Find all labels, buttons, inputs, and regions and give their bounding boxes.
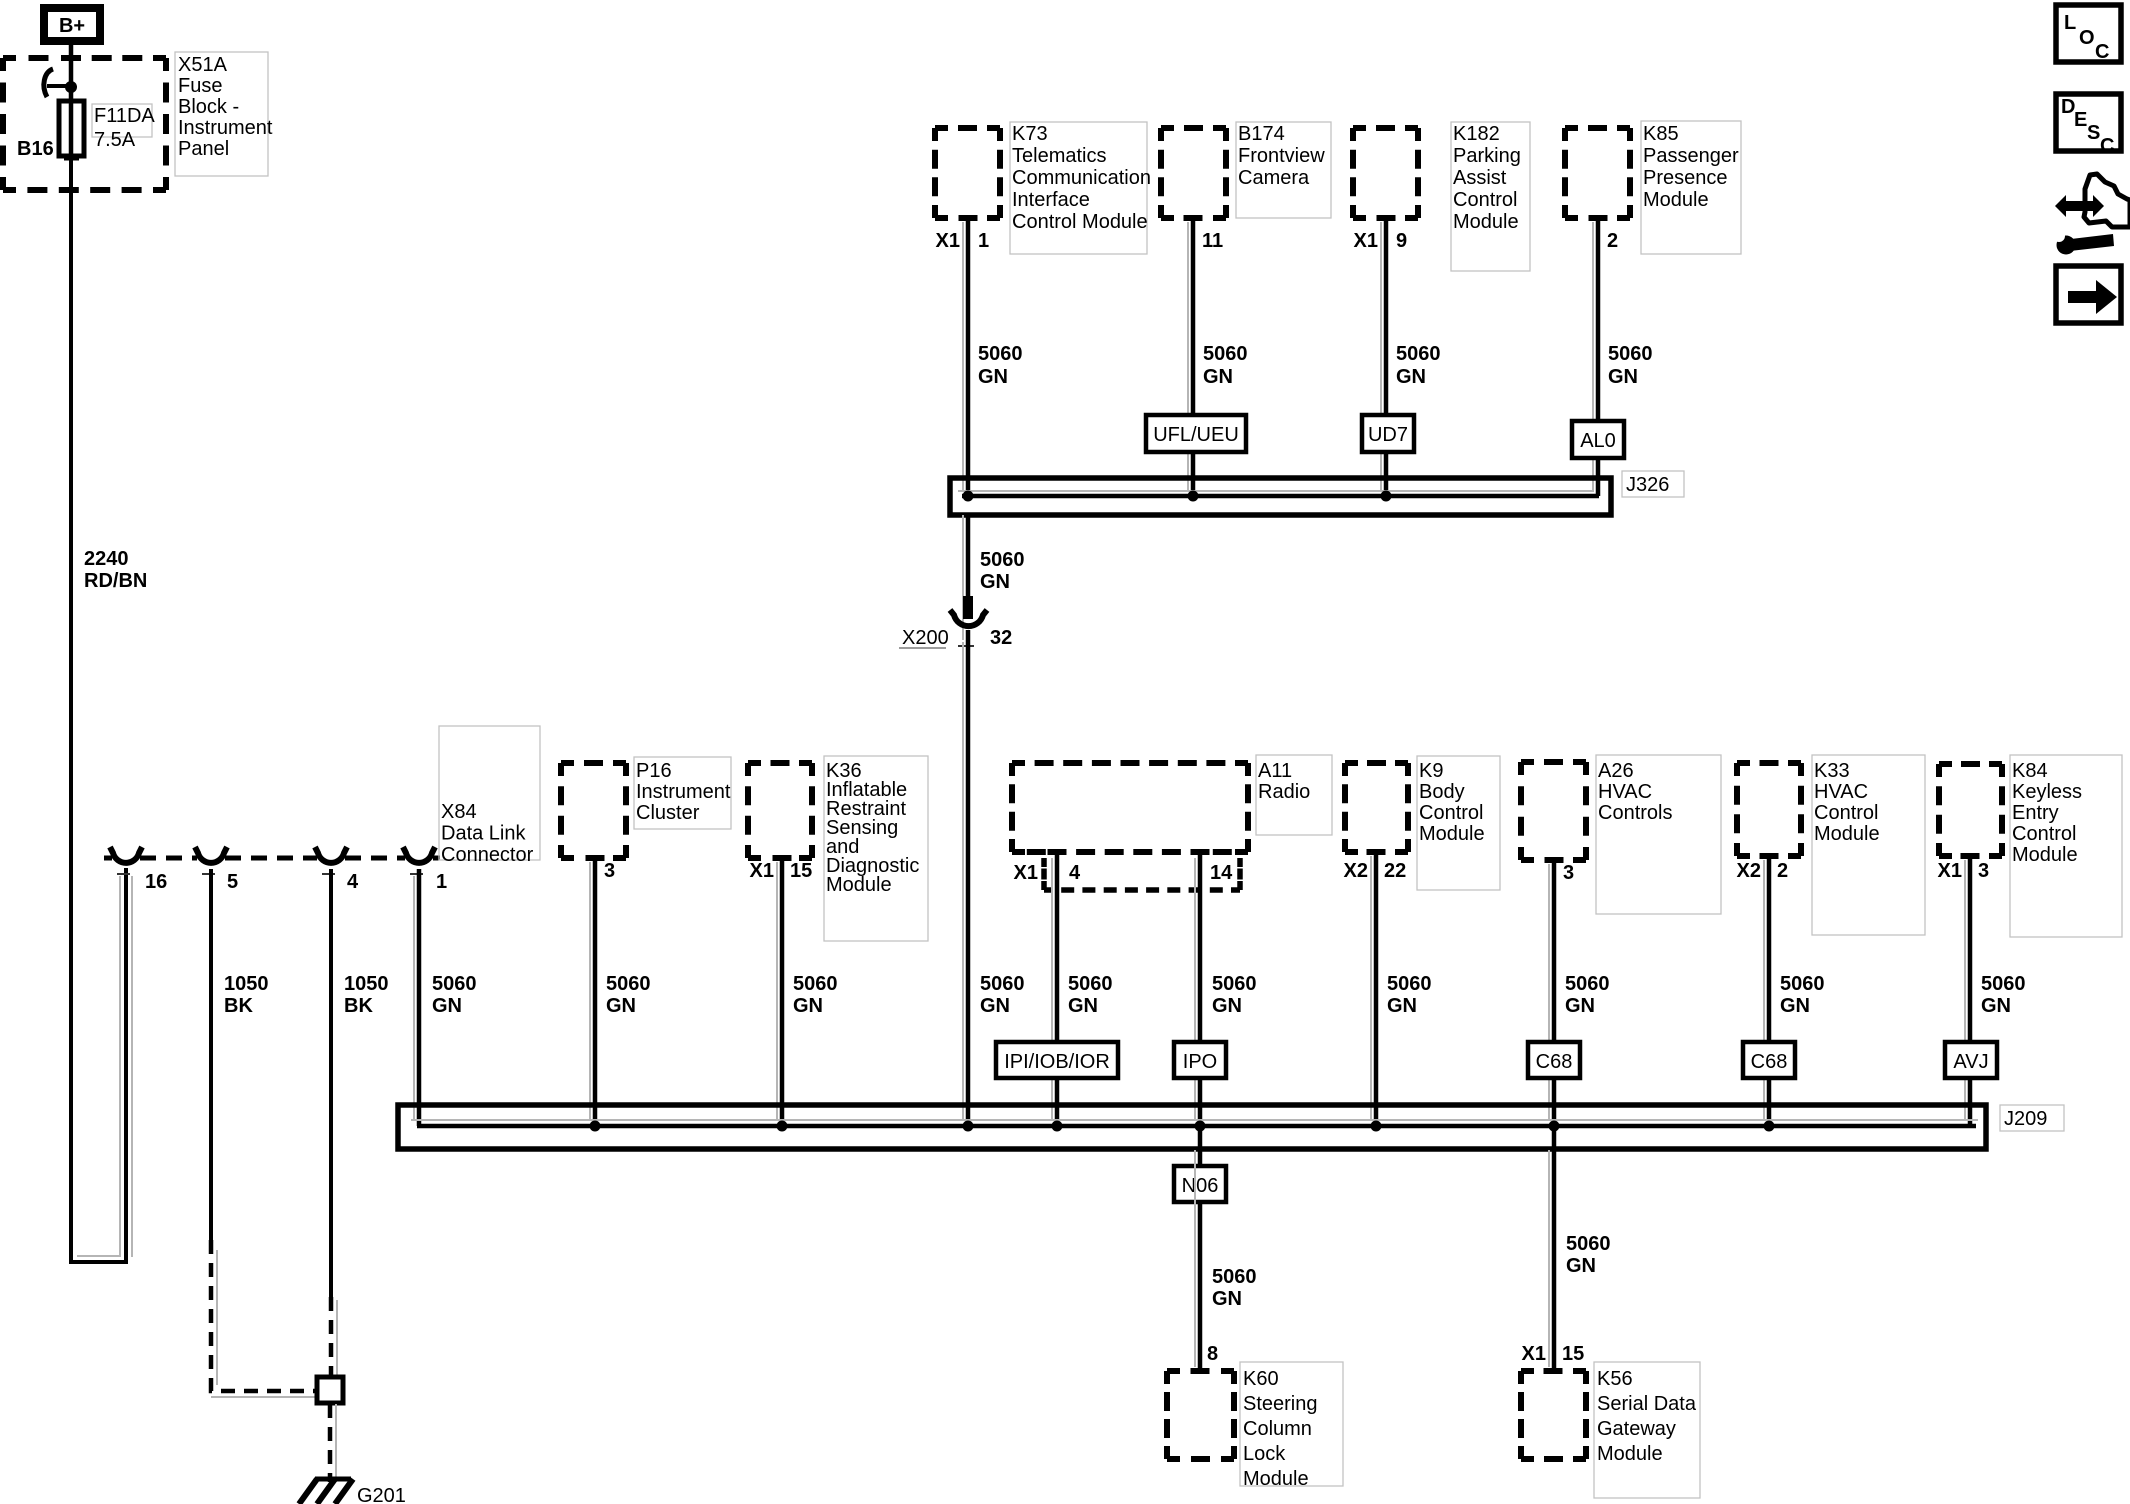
wire P16 to J209 bbox=[593, 855, 598, 1126]
svg-text:5060: 5060 bbox=[1396, 343, 1441, 365]
wire K85 to J326 bbox=[1596, 215, 1601, 496]
wire X84 pin 4 dashed to splice bbox=[329, 1297, 334, 1375]
svg-text:5060: 5060 bbox=[1387, 973, 1432, 995]
option box N06 bbox=[1174, 1126, 1226, 1202]
svg-text:X1: X1 bbox=[1354, 230, 1378, 252]
svg-text:2: 2 bbox=[1607, 230, 1618, 252]
svg-text:K73: K73 bbox=[1012, 123, 1048, 145]
wire label 5060 GN (X200 feed) bbox=[980, 549, 1025, 593]
svg-text:BK: BK bbox=[224, 995, 253, 1017]
ground G201 bbox=[299, 1479, 353, 1504]
option box C68 (A26 branch) bbox=[1528, 1042, 1580, 1078]
svg-text:Presence: Presence bbox=[1643, 167, 1728, 189]
svg-text:5060: 5060 bbox=[1203, 343, 1248, 365]
svg-text:Instrument: Instrument bbox=[178, 117, 273, 139]
svg-text:AL0: AL0 bbox=[1580, 430, 1616, 452]
svg-text:GN: GN bbox=[432, 995, 462, 1017]
svg-text:11: 11 bbox=[1202, 230, 1223, 252]
wire K36 to J209 bbox=[780, 855, 785, 1126]
svg-text:1050: 1050 bbox=[344, 973, 389, 995]
svg-text:L: L bbox=[2064, 12, 2076, 34]
wire label 1050 BK (pin 5) bbox=[224, 973, 269, 1017]
pin X2 2 of K33 bbox=[1737, 860, 1789, 882]
svg-text:UD7: UD7 bbox=[1368, 424, 1408, 446]
svg-text:RD/BN: RD/BN bbox=[84, 570, 147, 592]
svg-text:Serial Data: Serial Data bbox=[1597, 1393, 1697, 1415]
svg-text:Block -: Block - bbox=[178, 96, 239, 118]
svg-text:22: 22 bbox=[1384, 860, 1406, 882]
svg-text:O: O bbox=[2079, 27, 2095, 49]
module K60 Steering Column Lock Module bbox=[1167, 1362, 1343, 1490]
svg-text:5060: 5060 bbox=[793, 973, 838, 995]
svg-text:C: C bbox=[2095, 41, 2109, 63]
svg-text:4: 4 bbox=[347, 871, 359, 893]
svg-text:UFL/UEU: UFL/UEU bbox=[1153, 424, 1239, 446]
svg-text:GN: GN bbox=[1981, 995, 2011, 1017]
svg-text:14: 14 bbox=[1210, 862, 1233, 884]
svg-text:5060: 5060 bbox=[1212, 1266, 1257, 1288]
wire C68 to K56 bbox=[1552, 1126, 1557, 1373]
wire label 5060 GN (K56) bbox=[1566, 1233, 1611, 1277]
svg-text:5060: 5060 bbox=[980, 549, 1025, 571]
fuse holder clip bbox=[44, 69, 77, 97]
svg-text:K182: K182 bbox=[1453, 123, 1500, 145]
pin numbers 16 5 4 1 of X84 bbox=[145, 871, 447, 893]
connector X84 cavity 5 bbox=[195, 847, 227, 863]
wire B+ to fuse bbox=[69, 45, 74, 101]
svg-text:Module: Module bbox=[1643, 189, 1709, 211]
wire N06 to K60 bbox=[1198, 1202, 1203, 1373]
wire X200 to J209 bbox=[966, 630, 971, 1126]
module A26 HVAC Controls bbox=[1521, 755, 1721, 914]
svg-text:Passenger: Passenger bbox=[1643, 145, 1739, 167]
svg-text:Module: Module bbox=[1453, 211, 1519, 233]
svg-text:C68: C68 bbox=[1536, 1051, 1573, 1073]
svg-text:3: 3 bbox=[1563, 862, 1574, 884]
svg-text:B16: B16 bbox=[17, 138, 54, 160]
connector X84 cavity 4 bbox=[315, 847, 347, 863]
label X84 Data Link Connector bbox=[439, 726, 540, 866]
svg-text:X51A: X51A bbox=[178, 54, 228, 76]
fuse block X51A dashed outline bbox=[3, 58, 166, 190]
svg-text:Parking: Parking bbox=[1453, 145, 1521, 167]
svg-text:5060: 5060 bbox=[606, 973, 651, 995]
svg-text:GN: GN bbox=[1566, 1255, 1596, 1277]
wire A11 pin 14 to J209 bbox=[1198, 850, 1203, 1126]
svg-text:Camera: Camera bbox=[1238, 167, 1310, 189]
svg-text:X1: X1 bbox=[1938, 860, 1962, 882]
svg-text:15: 15 bbox=[790, 860, 812, 882]
wire label 5060 GN (pin 1) bbox=[432, 973, 477, 1017]
splice pack J209 bbox=[398, 1105, 1986, 1149]
wire X84 pin 5 ground branch solid part bbox=[209, 869, 213, 1240]
svg-text:3: 3 bbox=[604, 860, 615, 882]
svg-text:F11DA: F11DA bbox=[94, 105, 155, 127]
svg-text:Column: Column bbox=[1243, 1418, 1312, 1440]
svg-text:IPI/IOB/IOR: IPI/IOB/IOR bbox=[1004, 1051, 1110, 1073]
wire label 5060 GN (A26) bbox=[1565, 973, 1610, 1017]
connector X84 cavity 16 bbox=[110, 847, 142, 863]
svg-text:5060: 5060 bbox=[1566, 1233, 1611, 1255]
svg-text:GN: GN bbox=[1068, 995, 1098, 1017]
svg-text:5060: 5060 bbox=[1608, 343, 1653, 365]
data link connector X84 face line bbox=[104, 856, 440, 861]
svg-text:Module: Module bbox=[1597, 1443, 1663, 1465]
label J209 bbox=[2000, 1105, 2064, 1131]
svg-text:GN: GN bbox=[1608, 366, 1638, 388]
svg-text:Module: Module bbox=[1243, 1468, 1309, 1490]
connector X1 sub-outline of A11 bbox=[1044, 858, 1240, 890]
svg-text:Entry: Entry bbox=[2012, 802, 2059, 824]
module K85 Passenger Presence Module bbox=[1565, 121, 1741, 254]
svg-text:5060: 5060 bbox=[980, 973, 1025, 995]
wire B174 to J326 bbox=[1191, 215, 1196, 496]
svg-text:16: 16 bbox=[145, 871, 167, 893]
svg-text:1: 1 bbox=[436, 871, 447, 893]
svg-text:E: E bbox=[2074, 109, 2087, 131]
svg-text:Lock: Lock bbox=[1243, 1443, 1286, 1465]
svg-text:K9: K9 bbox=[1419, 760, 1443, 782]
wire X84 pin 5 dashed to splice bbox=[211, 1240, 317, 1391]
pin X2 22 of K9 bbox=[1344, 860, 1407, 882]
svg-text:Control: Control bbox=[1419, 802, 1483, 824]
wire label 5060 GN (K84) bbox=[1981, 973, 2026, 1017]
svg-text:Module: Module bbox=[826, 874, 892, 896]
wire splice to ground dashed bbox=[328, 1404, 333, 1482]
svg-text:B174: B174 bbox=[1238, 123, 1285, 145]
svg-text:8: 8 bbox=[1207, 1343, 1218, 1365]
svg-text:Body: Body bbox=[1419, 781, 1465, 803]
svg-text:HVAC: HVAC bbox=[1814, 781, 1868, 803]
svg-text:K85: K85 bbox=[1643, 123, 1679, 145]
module K56 Serial Data Gateway Module bbox=[1521, 1362, 1700, 1498]
svg-text:K60: K60 bbox=[1243, 1368, 1279, 1390]
wire label 5060 GN (B174) bbox=[1203, 343, 1248, 388]
svg-text:S: S bbox=[2087, 122, 2100, 144]
svg-text:IPO: IPO bbox=[1183, 1051, 1217, 1073]
svg-text:X1: X1 bbox=[1522, 1343, 1546, 1365]
wire label 5060 GN (K182) bbox=[1396, 343, 1441, 388]
wire 2240 RD/BN left vertical with U-turn to X84 pin 16 bbox=[71, 156, 126, 1262]
svg-text:5060: 5060 bbox=[432, 973, 477, 995]
svg-text:C: C bbox=[2100, 135, 2114, 157]
svg-text:Control: Control bbox=[1814, 802, 1878, 824]
wire label 5060 GN (P16) bbox=[606, 973, 651, 1017]
svg-text:C68: C68 bbox=[1751, 1051, 1788, 1073]
svg-text:X1: X1 bbox=[750, 860, 774, 882]
sidebar icon DESC bbox=[2056, 94, 2121, 157]
svg-text:5060: 5060 bbox=[1212, 973, 1257, 995]
wire J326 to X200 bbox=[966, 515, 971, 600]
wire label 5060 GN (K85) bbox=[1608, 343, 1653, 388]
svg-text:GN: GN bbox=[1396, 366, 1426, 388]
svg-text:Control: Control bbox=[1453, 189, 1517, 211]
svg-text:GN: GN bbox=[978, 366, 1008, 388]
svg-text:J209: J209 bbox=[2004, 1108, 2047, 1130]
svg-text:2: 2 bbox=[1777, 860, 1788, 882]
svg-text:Control: Control bbox=[2012, 823, 2076, 845]
inline connector X200 terminal 32 bbox=[899, 596, 1012, 649]
wire label 5060 GN (K73) bbox=[978, 343, 1023, 388]
wire A26 to J209 bbox=[1552, 857, 1557, 1126]
option box AL0 bbox=[1572, 421, 1624, 458]
wire label 5060 GN (K9) bbox=[1387, 973, 1432, 1017]
module A11 Radio bbox=[1012, 755, 1332, 852]
svg-text:Gateway: Gateway bbox=[1597, 1418, 1676, 1440]
wire K9 to J209 bbox=[1374, 849, 1379, 1126]
svg-text:GN: GN bbox=[980, 571, 1010, 593]
svg-text:GN: GN bbox=[1203, 366, 1233, 388]
wire K33 to J209 bbox=[1767, 853, 1772, 1126]
wire label 2240 RD/BN bbox=[84, 548, 147, 592]
label X51A Fuse Block - Instrument Panel bbox=[175, 52, 273, 176]
pin X1 4 of A11 bbox=[1014, 862, 1081, 884]
option box UD7 bbox=[1362, 415, 1414, 452]
sidebar icon LOC bbox=[2056, 5, 2121, 63]
svg-text:K84: K84 bbox=[2012, 760, 2048, 782]
svg-text:GN: GN bbox=[1565, 995, 1595, 1017]
option box UFL/UEU bbox=[1146, 415, 1246, 452]
splice pack J326 bbox=[950, 478, 1611, 515]
sidebar icon next page arrow bbox=[2056, 266, 2121, 323]
svg-text:1050: 1050 bbox=[224, 973, 269, 995]
option box AVJ bbox=[1945, 1042, 1997, 1078]
svg-text:Telematics: Telematics bbox=[1012, 145, 1106, 167]
svg-text:X84: X84 bbox=[441, 801, 477, 823]
svg-text:GN: GN bbox=[1212, 995, 1242, 1017]
highlight trace inside U-turn bbox=[77, 876, 120, 1256]
svg-text:X1: X1 bbox=[936, 230, 960, 252]
svg-text:P16: P16 bbox=[636, 760, 672, 782]
svg-text:1: 1 bbox=[978, 230, 989, 252]
module K84 Keyless Entry Control Module bbox=[1939, 755, 2122, 937]
svg-text:A11: A11 bbox=[1258, 760, 1292, 782]
wire label 5060 GN (A11 pin 4) bbox=[1068, 973, 1113, 1017]
svg-text:5060: 5060 bbox=[1565, 973, 1610, 995]
svg-text:Interface: Interface bbox=[1012, 189, 1090, 211]
svg-text:9: 9 bbox=[1396, 230, 1407, 252]
module K182 Parking Assist Control Module bbox=[1353, 122, 1530, 271]
svg-text:2240: 2240 bbox=[84, 548, 129, 570]
svg-text:GN: GN bbox=[1212, 1288, 1242, 1310]
wire label 5060 GN (K60) bbox=[1212, 1266, 1257, 1310]
label J326 bbox=[1622, 471, 1684, 497]
fuse F11DA 7.5A bbox=[59, 101, 84, 159]
svg-text:3: 3 bbox=[1978, 860, 1989, 882]
svg-text:HVAC: HVAC bbox=[1598, 781, 1652, 803]
pin X1 3 of K84 bbox=[1938, 860, 1990, 882]
wire label 5060 GN (K33) bbox=[1780, 973, 1825, 1017]
module K9 Body Control Module bbox=[1345, 756, 1500, 890]
svg-text:Control Module: Control Module bbox=[1012, 211, 1148, 233]
svg-text:BK: BK bbox=[344, 995, 373, 1017]
svg-text:5060: 5060 bbox=[1068, 973, 1113, 995]
svg-text:AVJ: AVJ bbox=[1953, 1051, 1988, 1073]
svg-text:Connector: Connector bbox=[441, 844, 534, 866]
svg-text:J326: J326 bbox=[1626, 474, 1669, 496]
pin X1 1 of K73 bbox=[936, 230, 990, 252]
module P16 Instrument Cluster bbox=[561, 757, 731, 858]
svg-text:X2: X2 bbox=[1344, 860, 1368, 882]
module B174 Frontview Camera bbox=[1161, 122, 1331, 218]
svg-text:Controls: Controls bbox=[1598, 802, 1672, 824]
module K36 Inflatable Restraint Sensing and Diagnostic Module bbox=[748, 756, 928, 941]
svg-text:Assist: Assist bbox=[1453, 167, 1507, 189]
svg-text:GN: GN bbox=[793, 995, 823, 1017]
svg-text:Module: Module bbox=[2012, 844, 2078, 866]
svg-text:X2: X2 bbox=[1737, 860, 1761, 882]
svg-text:Module: Module bbox=[1814, 823, 1880, 845]
splice junction block bbox=[317, 1377, 343, 1403]
wire X84 pin 1 to J209 bbox=[417, 869, 422, 1126]
svg-text:Fuse: Fuse bbox=[178, 75, 222, 97]
wire K84 to J209 bbox=[1968, 853, 1973, 1126]
svg-text:X1: X1 bbox=[1014, 862, 1038, 884]
svg-text:Module: Module bbox=[1419, 823, 1485, 845]
wire A11 pin 4 to J209 bbox=[1055, 850, 1060, 1126]
wire label 1050 BK (pin 4) bbox=[344, 973, 389, 1017]
wire label 5060 GN (X200 lower) bbox=[980, 973, 1025, 1017]
svg-text:5: 5 bbox=[227, 871, 238, 893]
svg-text:15: 15 bbox=[1562, 1343, 1584, 1365]
svg-text:Communication: Communication bbox=[1012, 167, 1151, 189]
svg-text:G201: G201 bbox=[357, 1485, 406, 1504]
pin X1 15 of K56 bbox=[1522, 1343, 1585, 1365]
svg-text:K56: K56 bbox=[1597, 1368, 1633, 1390]
option box C68 (K33 branch) bbox=[1743, 1042, 1795, 1078]
svg-text:Frontview: Frontview bbox=[1238, 145, 1325, 167]
svg-text:Steering: Steering bbox=[1243, 1393, 1318, 1415]
svg-text:GN: GN bbox=[606, 995, 636, 1017]
sidebar icon harness routing view (arrows and wrench) bbox=[2053, 174, 2130, 255]
option box IPO bbox=[1174, 1042, 1226, 1078]
fuse value label F11DA 7.5A bbox=[92, 104, 155, 151]
option box IPI/IOB/IOR bbox=[996, 1042, 1118, 1078]
svg-text:5060: 5060 bbox=[978, 343, 1023, 365]
pin X1 9 of K182 bbox=[1354, 230, 1408, 252]
wire label 5060 GN (K36) bbox=[793, 973, 838, 1017]
svg-text:Radio: Radio bbox=[1258, 781, 1310, 803]
svg-text:GN: GN bbox=[980, 995, 1010, 1017]
wire K182 to J326 bbox=[1384, 215, 1389, 496]
wire X84 pin 4 ground branch solid part bbox=[329, 869, 333, 1297]
svg-text:Cluster: Cluster bbox=[636, 802, 700, 824]
module K33 HVAC Control Module bbox=[1737, 755, 1925, 935]
svg-text:X200: X200 bbox=[902, 627, 949, 649]
svg-text:7.5A: 7.5A bbox=[94, 129, 136, 151]
svg-text:Panel: Panel bbox=[178, 138, 229, 160]
svg-text:Data Link: Data Link bbox=[441, 823, 526, 845]
wire K73 to J326 bbox=[966, 215, 971, 496]
svg-text:N06: N06 bbox=[1182, 1175, 1219, 1197]
connector X84 cavity 1 bbox=[403, 847, 435, 863]
svg-text:4: 4 bbox=[1069, 862, 1081, 884]
wire label 5060 GN (A11 pin 14) bbox=[1212, 973, 1257, 1017]
svg-text:A26: A26 bbox=[1598, 760, 1634, 782]
svg-text:5060: 5060 bbox=[1981, 973, 2026, 995]
svg-text:B+: B+ bbox=[59, 15, 85, 37]
svg-text:GN: GN bbox=[1780, 995, 1810, 1017]
svg-text:Keyless: Keyless bbox=[2012, 781, 2082, 803]
svg-text:5060: 5060 bbox=[1780, 973, 1825, 995]
module K73 Telematics Communication Interface Control Module bbox=[935, 122, 1151, 254]
svg-text:GN: GN bbox=[1387, 995, 1417, 1017]
svg-text:Instrument: Instrument bbox=[636, 781, 731, 803]
svg-text:32: 32 bbox=[990, 627, 1012, 649]
svg-text:K33: K33 bbox=[1814, 760, 1850, 782]
pin X1 15 of K36 bbox=[750, 860, 813, 882]
power symbol B+ bbox=[44, 8, 100, 41]
